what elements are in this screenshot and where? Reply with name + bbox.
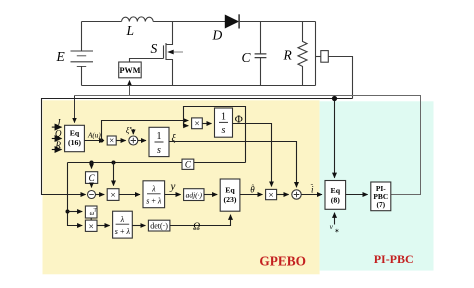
summer 2 xyxy=(292,190,301,199)
svg-text:λ: λ xyxy=(151,185,156,194)
svg-text:GPEBO: GPEBO xyxy=(259,254,306,269)
resistor R xyxy=(298,22,307,86)
diode D xyxy=(225,14,239,28)
svg-text:C: C xyxy=(185,160,192,170)
svg-text:×: × xyxy=(268,191,273,201)
block Eq (8) xyxy=(325,181,346,210)
block det xyxy=(148,220,170,231)
wire line to x3 top xyxy=(113,163,115,186)
wire Phi feedback loop xyxy=(184,107,246,163)
wire det to Eq23 bottom, Omega xyxy=(170,215,231,226)
wire A(u) up to product xyxy=(102,121,189,141)
wire u line (control output) xyxy=(75,96,421,195)
svg-text:det(·): det(·) xyxy=(150,222,168,231)
PI-PBC cyan region xyxy=(320,101,434,270)
node A(u) xyxy=(100,139,104,143)
capacitor C xyxy=(255,22,267,86)
transistor arrow xyxy=(167,50,173,55)
svg-text:ξ: ξ xyxy=(172,133,177,144)
wire filter2 to det xyxy=(132,225,145,227)
node junction on v line xyxy=(332,96,337,101)
wire x1 to sum xyxy=(116,140,126,142)
block multiplier x5 xyxy=(85,220,97,232)
wire v to Eq8 xyxy=(334,99,336,178)
svg-text:Eq: Eq xyxy=(70,128,80,137)
svg-text:PWM: PWM xyxy=(120,66,141,75)
svg-text:×: × xyxy=(109,136,114,146)
GPEBO yellow region xyxy=(43,100,320,274)
svg-text:adj(·): adj(·) xyxy=(186,191,203,200)
svg-text:s: s xyxy=(222,125,226,136)
PWM block xyxy=(119,62,142,78)
svg-text:Eq: Eq xyxy=(331,186,341,195)
svg-text:(7): (7) xyxy=(376,200,385,209)
svg-text:s + λ: s + λ xyxy=(115,227,131,236)
svg-text:1: 1 xyxy=(157,131,162,142)
wire x4 to sum2 xyxy=(277,194,289,196)
wire output branch xyxy=(315,22,317,86)
svg-text:L: L xyxy=(126,23,135,38)
svg-text:Eq: Eq xyxy=(225,185,235,194)
block filter lambda/(s+lambda) 1 xyxy=(143,181,165,208)
block multiplier x3 xyxy=(107,189,119,201)
svg-text:C: C xyxy=(242,50,252,65)
wire bottom rail xyxy=(82,85,316,87)
wire omega-T to x5 xyxy=(90,218,92,220)
wire to C1 xyxy=(91,163,93,169)
wire measurement line v xyxy=(42,99,353,195)
wire filter1 to adj xyxy=(165,194,181,196)
block C (on line) xyxy=(182,159,194,169)
svg-text:PI-PBC: PI-PBC xyxy=(374,252,414,266)
block multiplier x1 xyxy=(107,136,116,146)
svg-text:(16): (16) xyxy=(68,138,81,147)
block multiplier x2 xyxy=(192,118,203,130)
wire x5 to filter2 xyxy=(97,225,110,227)
wire v-star input xyxy=(334,213,336,225)
svg-text:R: R xyxy=(283,48,293,63)
svg-text:ξ: ξ xyxy=(126,125,130,135)
subtractor circle xyxy=(88,191,96,199)
wire adj to Eq23 xyxy=(204,194,217,196)
block Eq (16) xyxy=(65,125,85,151)
svg-text:E: E xyxy=(56,49,66,64)
wire lower branch vertical xyxy=(68,163,83,226)
node to C block xyxy=(90,161,94,165)
wire sum to integrator xyxy=(138,140,146,142)
svg-text:s + λ: s + λ xyxy=(146,197,162,206)
wire u to Eq16 xyxy=(74,96,76,123)
svg-text:s: s xyxy=(157,145,161,156)
node lower branch xyxy=(66,210,70,214)
svg-text:(8): (8) xyxy=(331,196,340,205)
wire Eq8 to PI-PBC xyxy=(346,194,368,196)
voltage sensor xyxy=(316,51,353,99)
svg-text:Q: Q xyxy=(55,129,62,139)
block PI-PBC (7) xyxy=(371,182,391,211)
wire x2 to integrator2 xyxy=(202,123,211,125)
svg-text:T: T xyxy=(94,209,97,214)
transistor S (switch) xyxy=(130,22,184,86)
wire x3 to filter1 xyxy=(119,194,140,196)
block multiplier x4 xyxy=(266,189,277,201)
block omega transpose xyxy=(85,206,97,218)
block integrator 1/s (Phi) xyxy=(215,108,233,137)
wire Eq23 to x4, theta-hat xyxy=(240,194,263,196)
block Eq (23) xyxy=(220,179,240,211)
inductor L xyxy=(122,17,154,22)
wire to omega-T block xyxy=(68,211,83,213)
svg-text:×: × xyxy=(194,120,199,130)
svg-text:1: 1 xyxy=(221,112,226,123)
wire xi to sum2 xyxy=(169,142,297,188)
svg-text:R: R xyxy=(55,140,62,150)
svg-text:Ω: Ω xyxy=(193,222,200,233)
node to x3 xyxy=(112,161,116,165)
wire Phi to product x4 xyxy=(233,124,272,187)
svg-text:×: × xyxy=(110,191,115,201)
block integrator 1/s (xi) xyxy=(149,127,169,156)
svg-text:S: S xyxy=(151,41,158,56)
svg-text:C: C xyxy=(89,173,96,183)
svg-text:y: y xyxy=(170,181,176,193)
wire top rail xyxy=(82,21,316,23)
wire C1 to subtractor xyxy=(91,183,93,187)
Eq (16) inputs J Q R xyxy=(52,127,62,149)
summer 1 xyxy=(129,136,138,145)
svg-text:A(u): A(u) xyxy=(87,131,101,139)
wire C distribution line xyxy=(68,162,246,164)
wire subtractor to x3 xyxy=(96,194,105,196)
svg-text:D: D xyxy=(212,28,223,43)
wire sum2 to Eq8, i-hat xyxy=(301,194,322,196)
svg-text:×: × xyxy=(89,222,94,232)
svg-text:λ: λ xyxy=(120,215,125,224)
svg-text:∗: ∗ xyxy=(334,229,339,235)
battery E xyxy=(71,22,94,86)
wire A(u) row xyxy=(84,140,104,142)
svg-text:(23): (23) xyxy=(224,195,237,204)
block filter lambda/(s+lambda) 2 xyxy=(113,211,133,238)
block adj xyxy=(184,189,204,201)
wire PWM gate drive input xyxy=(129,81,131,96)
block C1 xyxy=(86,172,98,184)
